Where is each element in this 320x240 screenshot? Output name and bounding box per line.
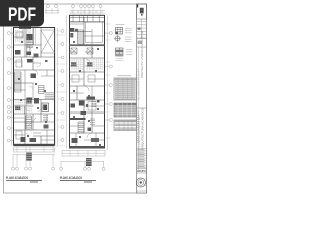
title strip upper cells — [137, 22, 147, 39]
label left plan underline / scale bar — [6, 181, 42, 183]
table 3 frame — [114, 120, 137, 131]
left plan fixture blob 6 — [31, 74, 37, 79]
table 3 column lines — [119, 120, 132, 131]
left plan central column texture — [27, 28, 36, 57]
middle grid bubbles — [61, 30, 64, 142]
svg-text:AV. LOS ALAMOS MZ B LT 4: AV. LOS ALAMOS MZ B LT 4 — [138, 68, 141, 100]
left plan scatter dots — [18, 41, 48, 137]
left plan fixture blob 10 — [21, 137, 26, 142]
bottom detail block left plan — [26, 153, 32, 161]
bottom grid bubbles right plan — [60, 167, 106, 170]
left grid bubbles — [7, 32, 10, 143]
right plan tile hatch kitchen — [71, 60, 84, 69]
legend icon 3 text — [126, 50, 133, 55]
svg-text:PLANO DE ACABADOS 1ER: PLANO DE ACABADOS 1ER — [138, 115, 141, 148]
right plan shelf stack b — [90, 119, 95, 124]
title strip firm name row — [137, 169, 147, 174]
right plan tile hatch bath — [86, 60, 103, 69]
top grid bubbles left plan — [47, 5, 58, 8]
table 2 grey block — [114, 103, 137, 117]
right plan dark band partition — [70, 118, 86, 120]
right plan stair lower — [78, 122, 84, 133]
left plan tile hatch room 2 verticals — [16, 100, 31, 113]
bottom dimension line right plan — [61, 161, 104, 167]
title strip seal side marks — [145, 179, 146, 186]
left plan stair upper — [15, 72, 22, 92]
right plan top-left corner dark mark — [70, 33, 73, 38]
table 2 header dark — [114, 103, 137, 105]
table 1 header fill — [114, 78, 137, 80]
left plan double wall lines — [26, 28, 34, 129]
table 1 cell text smudges — [115, 81, 136, 99]
table 2 white column lines — [118, 103, 132, 117]
top dimension line left plan — [45, 8, 59, 13]
left plan outer walls — [14, 28, 55, 146]
left plan fixture blob 2 — [15, 50, 21, 55]
legend icon 2 text — [125, 37, 132, 41]
svg-text:GRUPO: GRUPO — [137, 170, 146, 173]
title strip seal outer circle — [136, 178, 145, 187]
right grid bubbles — [109, 32, 112, 122]
svg-text:PLANO ACABADOS: PLANO ACABADOS — [60, 176, 82, 180]
bottom dimension cells dividers right plan — [62, 151, 105, 157]
left plan fixture blob 1 — [27, 34, 33, 40]
right plan detail lines a — [70, 24, 105, 148]
table 1 row lines — [114, 80, 137, 98]
left plan small stair right — [39, 86, 45, 94]
right plan fixture blob 2 — [87, 62, 93, 67]
left plan top wall dark segment — [19, 27, 31, 29]
right plan closet dark marks — [70, 28, 75, 32]
table 3 header fill — [114, 120, 137, 122]
title strip corner tick — [137, 5, 138, 8]
right plan stair upper — [78, 30, 84, 44]
gap horizontal dim ticks — [56, 35, 66, 146]
bottom detail block stripes right — [86, 160, 92, 164]
right plan fixture blob 1 — [71, 62, 77, 67]
bottom dimension cells left plan — [14, 147, 55, 152]
bottom detail block stripes left — [26, 154, 32, 158]
legend label small — [116, 24, 125, 26]
table 3 row lines — [114, 122, 137, 130]
left plan fixture blob 5 — [27, 59, 33, 63]
title strip revision table — [137, 149, 147, 168]
left plan interior partitions horizontal — [14, 45, 55, 136]
left plan fixture blob 9 — [15, 106, 21, 111]
left plan fixture blob 4 — [34, 54, 39, 58]
title strip seal core — [140, 181, 142, 183]
left plan void X-brace — [41, 30, 55, 53]
left plan tile hatch room 1 verticals — [16, 30, 24, 43]
left plan wc dark box — [42, 103, 49, 112]
legend icon 2 crosshair — [114, 35, 121, 42]
left plan fixture blob 7 — [26, 98, 32, 104]
legend icon 1 text — [125, 29, 132, 33]
page background — [0, 0, 149, 198]
left plan stair core upper — [27, 41, 34, 48]
title strip bottom rule — [137, 190, 147, 192]
title strip small box mark — [138, 41, 143, 45]
right plan X-column 1 — [71, 48, 77, 54]
top dimension lines right plan — [70, 11, 105, 14]
left plan furniture outline 2 — [16, 60, 22, 67]
left plan interior partitions vertical — [25, 28, 41, 145]
right plan shelf line — [70, 31, 92, 33]
PDF badge — [0, 0, 44, 27]
table 3 checker rows — [114, 124, 137, 126]
title strip inner vertical rule — [138, 47, 140, 172]
table 1 frame — [114, 78, 137, 100]
right plan partitions h2 — [70, 58, 105, 133]
right plan top cell dividers — [73, 15, 99, 21]
svg-text:PROYECTO VIVIENDA MULTIFAM: PROYECTO VIVIENDA MULTIFAM — [140, 30, 144, 78]
title strip left column row marks — [137, 111, 139, 143]
right plan fixture blob 6 — [72, 138, 78, 143]
title strip upper cells marks — [138, 28, 141, 30]
left plan furniture outline 1 — [16, 32, 23, 38]
title strip seal inner circle — [138, 180, 144, 186]
title strip logo emblem — [140, 8, 144, 16]
right plan scatter dots — [73, 41, 101, 146]
table 2 white grid lines — [114, 105, 137, 114]
left plan bottom wall band — [14, 144, 55, 146]
bottom dimension cell dividers left plan — [14, 147, 55, 152]
right side dim ticks — [105, 24, 111, 138]
top grid bubble ticks right plan — [73, 8, 101, 16]
right plan tile hatch kitchen verticals — [72, 59, 83, 71]
right plan outer walls — [70, 15, 105, 148]
right plan furniture outline 1 — [72, 75, 79, 82]
right plan X-column 2 — [87, 48, 93, 54]
right plan double partition line — [70, 112, 105, 114]
top grid bubbles right plan — [72, 5, 103, 8]
bottom detail block right plan — [86, 158, 92, 166]
right plan shelf stack a — [92, 102, 97, 107]
legend icon 1 grid — [116, 28, 123, 35]
svg-text:ARQUITECTURA ACABADOS: ARQUITECTURA ACABADOS — [141, 108, 145, 149]
middle bubble ticks — [58, 31, 61, 140]
left dimension chain line — [10, 28, 13, 146]
left plan fixture blob 11 — [30, 138, 37, 142]
right plan bottom wall band — [70, 146, 105, 148]
right plan door arcs — [84, 58, 92, 138]
right plan fixture blob 5 — [81, 111, 87, 115]
left plan diagonal ramp — [28, 107, 43, 126]
svg-text:PDF: PDF — [8, 4, 36, 25]
left plan fixture blob 12 — [44, 125, 49, 129]
left plan window ticks on left wall — [12, 33, 14, 34]
right plan inner room outline — [86, 22, 103, 43]
bottom grid bubbles left plan — [12, 167, 55, 170]
sheet border frame — [4, 4, 147, 193]
bottom dimension line left plan — [13, 154, 55, 166]
left plan shelf stack lower — [43, 116, 48, 121]
table 1 caption dash — [117, 75, 131, 77]
title strip section divider 1 — [137, 39, 147, 48]
left plan tile hatch room 1 — [15, 31, 24, 41]
bottom dimension cells right plan — [62, 151, 105, 157]
right plan fixture blob 3 — [79, 101, 85, 106]
left plan fixture blob 8 — [34, 98, 39, 104]
right plan dark marks row upper — [87, 97, 96, 100]
right plan furniture outline 2 — [88, 75, 95, 82]
svg-text:PLANO ACABADOS: PLANO ACABADOS — [6, 176, 28, 180]
right plan fixture blob 4 — [71, 104, 76, 108]
label right plan underline / scale bar — [60, 181, 96, 183]
legend small marks below — [116, 59, 124, 61]
table 1 column lines — [118, 78, 132, 100]
left plan furniture outline 4 — [16, 131, 22, 139]
legend icon 3 grid — [116, 48, 124, 56]
right plan interior partitions vertical — [77, 17, 92, 133]
right dimension chain line — [105, 15, 109, 150]
left plan mid verticals lower — [25, 70, 33, 100]
left plan door arcs — [25, 45, 38, 111]
left plan fixture blob 3 — [27, 52, 32, 56]
left plan tile hatch room 2 — [15, 101, 33, 111]
right plan interior partitions horizontal — [70, 44, 105, 46]
title strip outer box — [137, 4, 147, 193]
title strip section divider 2 — [137, 107, 147, 109]
right plan top dim cell rows — [70, 17, 105, 19]
right plan tile hatch bath verticals — [88, 59, 103, 71]
middle dimension chain lines — [58, 15, 67, 148]
title strip upper cells divider — [141, 19, 143, 39]
right plan fixture blob 7 — [91, 138, 99, 142]
left plan stair lower — [26, 116, 32, 129]
left plan small detail lines a — [14, 28, 55, 145]
title strip revision marks — [138, 150, 145, 167]
title strip logo box — [137, 4, 147, 19]
right plan outline box mid — [88, 102, 96, 111]
right plan blob g — [88, 128, 92, 132]
right plan small dark marks mid — [97, 100, 100, 103]
left plan door swings extra — [25, 37, 41, 137]
left plan corner hatch block — [45, 93, 55, 99]
